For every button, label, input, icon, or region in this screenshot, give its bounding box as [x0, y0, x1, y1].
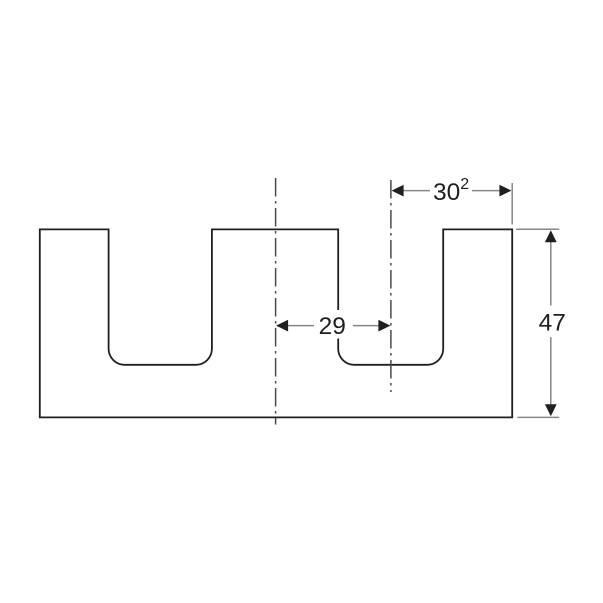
dimension 30² right arrow — [499, 185, 511, 197]
dimension 30² line segments — [402, 190, 430, 192]
svg-text:47: 47 — [539, 310, 566, 337]
svg-text:29: 29 — [319, 313, 346, 340]
centerline: right cutout center — [390, 180, 392, 392]
dimension 30² left arrow — [392, 185, 404, 197]
dimension 47 down arrow — [545, 404, 557, 416]
dimension 29 label halo — [316, 310, 350, 339]
extension line: bottom-right horizontal for 47 — [518, 416, 560, 418]
svg-text:2: 2 — [460, 176, 469, 193]
extension line: top-right horizontal for 47 — [516, 228, 559, 230]
dimension 29 left arrow — [276, 320, 288, 332]
svg-text:30: 30 — [433, 179, 460, 206]
dimension 29 line segments — [287, 325, 314, 327]
dimension 47 line segments — [550, 242, 552, 306]
dimension 29 right arrow — [378, 320, 390, 332]
part outline (plate with two U-shaped cutouts) — [40, 229, 512, 417]
extension line: vertical above top-right corner — [511, 183, 513, 225]
centerline: part center — [275, 178, 277, 425]
dimension 47 up arrow — [545, 230, 557, 242]
